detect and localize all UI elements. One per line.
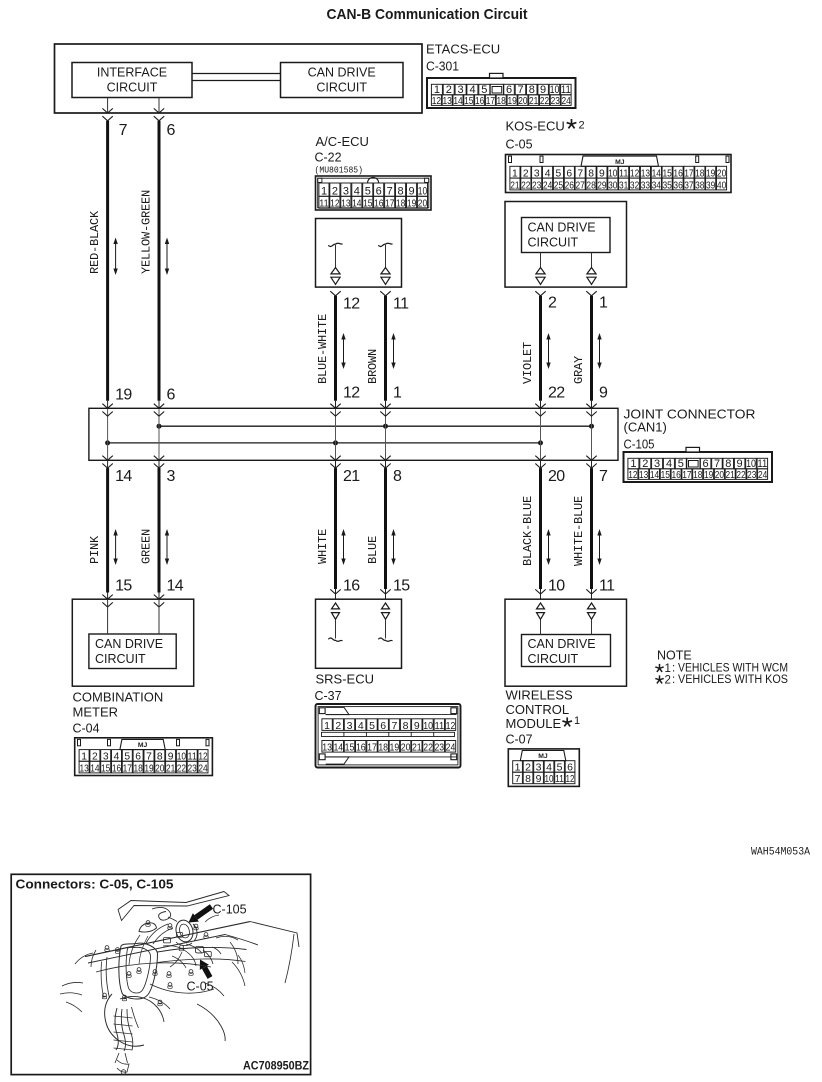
svg-text:VIOLET: VIOLET [521, 342, 535, 384]
svg-text:12: 12 [566, 773, 575, 785]
svg-text:BLACK-BLUE: BLACK-BLUE [521, 496, 535, 566]
svg-text:2: 2 [335, 720, 341, 732]
svg-text:11: 11 [599, 578, 615, 595]
svg-text:4: 4 [358, 720, 364, 732]
svg-text:29: 29 [597, 180, 607, 191]
svg-text:1: 1 [324, 720, 330, 732]
svg-text:CAN DRIVE: CAN DRIVE [308, 66, 376, 80]
svg-text:24: 24 [758, 469, 767, 481]
svg-text:22: 22 [423, 742, 433, 754]
svg-text:WAH54M053A: WAH54M053A [751, 847, 810, 859]
svg-text:12: 12 [343, 296, 360, 313]
svg-text:1: 1 [393, 385, 402, 402]
svg-text:C-22: C-22 [315, 151, 342, 165]
svg-text:NOTE: NOTE [657, 649, 692, 663]
svg-text:21: 21 [166, 763, 176, 774]
svg-text:17: 17 [682, 469, 691, 481]
svg-text:2: 2 [665, 674, 671, 686]
svg-text:30: 30 [608, 180, 618, 191]
svg-text:26: 26 [565, 180, 575, 191]
svg-text:21: 21 [726, 469, 735, 481]
svg-text:20: 20 [155, 763, 165, 774]
svg-text:36: 36 [673, 180, 683, 191]
svg-text:C-37: C-37 [315, 689, 342, 703]
svg-text:3: 3 [347, 720, 353, 732]
svg-text:C-07: C-07 [506, 733, 533, 747]
svg-text:21: 21 [412, 742, 422, 754]
svg-text:7: 7 [599, 468, 608, 485]
svg-text:20: 20 [401, 742, 411, 754]
svg-text:WIRELESS: WIRELESS [506, 688, 574, 703]
svg-text:BLUE: BLUE [366, 536, 380, 564]
svg-text:6: 6 [380, 720, 386, 732]
svg-text:C-05: C-05 [187, 980, 214, 994]
svg-text:METER: METER [73, 705, 119, 720]
svg-text:7: 7 [515, 773, 521, 785]
svg-text:18: 18 [396, 199, 406, 210]
svg-text:BLUE-WHITE: BLUE-WHITE [316, 314, 330, 384]
svg-text:17: 17 [385, 199, 395, 210]
svg-text:39: 39 [706, 180, 716, 191]
svg-text:19: 19 [115, 387, 132, 404]
svg-text:5: 5 [369, 720, 375, 732]
svg-text:C-04: C-04 [73, 722, 100, 736]
svg-text:24: 24 [543, 180, 553, 191]
svg-text:MJ: MJ [615, 159, 625, 166]
svg-text:17: 17 [123, 763, 133, 774]
svg-text:22: 22 [548, 385, 565, 402]
svg-text:VEHICLES WITH KOS: VEHICLES WITH KOS [678, 674, 788, 686]
svg-text:2: 2 [548, 295, 557, 312]
svg-text:C-301: C-301 [426, 60, 459, 74]
svg-text:MODULE: MODULE [506, 716, 562, 731]
svg-text:9: 9 [414, 720, 420, 732]
svg-text:(MU801585): (MU801585) [315, 166, 364, 176]
svg-text:8: 8 [403, 720, 409, 732]
svg-text:16: 16 [374, 199, 384, 210]
svg-text:23: 23 [434, 742, 444, 754]
svg-text:11: 11 [434, 720, 444, 732]
svg-text:C-105: C-105 [624, 438, 655, 452]
svg-text:23: 23 [551, 95, 560, 107]
svg-text:22: 22 [177, 763, 187, 774]
svg-text:WHITE-BLUE: WHITE-BLUE [572, 496, 586, 566]
svg-text:17: 17 [486, 95, 495, 107]
svg-text:13: 13 [443, 95, 452, 107]
svg-text:24: 24 [198, 763, 208, 774]
svg-text:AC708950BZ: AC708950BZ [243, 1059, 309, 1073]
svg-text:20: 20 [548, 468, 565, 485]
svg-text:11: 11 [555, 773, 564, 785]
svg-text:18: 18 [378, 742, 388, 754]
svg-text:16: 16 [475, 95, 484, 107]
svg-text:22: 22 [540, 95, 549, 107]
svg-text:9: 9 [536, 773, 542, 785]
svg-text:19: 19 [704, 469, 713, 481]
svg-text:8: 8 [525, 773, 531, 785]
svg-text:11: 11 [319, 199, 329, 210]
svg-text:COMBINATION: COMBINATION [73, 690, 164, 705]
svg-text:25: 25 [554, 180, 564, 191]
svg-text:PINK: PINK [88, 535, 102, 564]
svg-text:KOS-ECU: KOS-ECU [506, 119, 565, 134]
svg-text:12: 12 [446, 720, 456, 732]
svg-text:37: 37 [684, 180, 694, 191]
svg-text:13: 13 [639, 469, 648, 481]
svg-text:35: 35 [663, 180, 673, 191]
svg-text:YELLOW-GREEN: YELLOW-GREEN [140, 190, 154, 274]
svg-text:11: 11 [393, 296, 409, 313]
svg-text:BROWN: BROWN [366, 349, 380, 384]
svg-text:21: 21 [343, 468, 360, 485]
svg-text:16: 16 [356, 742, 366, 754]
svg-text:9: 9 [599, 385, 608, 402]
svg-text:34: 34 [652, 180, 662, 191]
svg-text:14: 14 [453, 95, 462, 107]
svg-text::: : [672, 663, 675, 675]
svg-text:31: 31 [619, 180, 629, 191]
svg-text:7: 7 [391, 720, 397, 732]
svg-text:15: 15 [393, 578, 410, 595]
svg-text:CIRCUIT: CIRCUIT [95, 652, 146, 666]
svg-text::: : [672, 674, 675, 686]
svg-text:21: 21 [529, 95, 538, 107]
svg-text:8: 8 [393, 468, 402, 485]
svg-text:16: 16 [112, 763, 122, 774]
svg-text:19: 19 [144, 763, 154, 774]
svg-text:22: 22 [736, 469, 745, 481]
svg-text:16: 16 [343, 578, 360, 595]
svg-text:A/C-ECU: A/C-ECU [316, 134, 369, 149]
svg-text:12: 12 [330, 199, 340, 210]
svg-text:22: 22 [521, 180, 531, 191]
svg-text:RED-BLACK: RED-BLACK [88, 210, 102, 274]
svg-text:19: 19 [507, 95, 516, 107]
svg-text:12: 12 [432, 95, 441, 107]
svg-text:15: 15 [115, 578, 132, 595]
svg-text:14: 14 [650, 469, 659, 481]
svg-text:1: 1 [665, 663, 671, 675]
svg-text:CIRCUIT: CIRCUIT [528, 236, 579, 250]
svg-text:14: 14 [352, 199, 362, 210]
svg-text:18: 18 [497, 95, 506, 107]
svg-text:CAN DRIVE: CAN DRIVE [528, 221, 596, 235]
svg-text:24: 24 [561, 95, 570, 107]
svg-text:13: 13 [79, 763, 89, 774]
svg-text:CONTROL: CONTROL [506, 702, 570, 717]
svg-text:38: 38 [695, 180, 705, 191]
svg-text:15: 15 [464, 95, 473, 107]
svg-text:C-05: C-05 [506, 138, 533, 152]
svg-text:18: 18 [133, 763, 143, 774]
svg-text:23: 23 [532, 180, 542, 191]
svg-text:20: 20 [418, 199, 428, 210]
svg-text:14: 14 [90, 763, 100, 774]
svg-text:(CAN1): (CAN1) [624, 420, 667, 435]
svg-text:7: 7 [119, 122, 128, 139]
svg-text:MJ: MJ [138, 742, 148, 749]
svg-text:19: 19 [407, 199, 417, 210]
svg-text:15: 15 [661, 469, 670, 481]
svg-text:17: 17 [367, 742, 377, 754]
svg-text:CAN DRIVE: CAN DRIVE [95, 637, 163, 651]
svg-text:C-105: C-105 [213, 903, 247, 917]
svg-text:15: 15 [345, 742, 355, 754]
svg-text:12: 12 [343, 385, 360, 402]
svg-text:CIRCUIT: CIRCUIT [316, 81, 367, 95]
svg-text:14: 14 [333, 742, 343, 754]
svg-text:14: 14 [167, 578, 184, 595]
svg-text:WHITE: WHITE [316, 529, 330, 564]
svg-text:40: 40 [717, 180, 727, 191]
svg-text:10: 10 [423, 720, 433, 732]
svg-text:32: 32 [630, 180, 640, 191]
svg-text:20: 20 [518, 95, 527, 107]
svg-text:15: 15 [101, 763, 111, 774]
svg-text:28: 28 [586, 180, 596, 191]
svg-text:6: 6 [167, 122, 176, 139]
svg-text:GRAY: GRAY [572, 356, 586, 384]
svg-text:1: 1 [574, 715, 580, 727]
svg-text:2: 2 [579, 120, 585, 132]
svg-text:CIRCUIT: CIRCUIT [528, 652, 579, 666]
svg-text:1: 1 [599, 295, 608, 312]
svg-text:24: 24 [446, 742, 456, 754]
svg-text:15: 15 [363, 199, 373, 210]
svg-text:27: 27 [576, 180, 586, 191]
svg-text:SRS-ECU: SRS-ECU [316, 672, 375, 687]
svg-text:CIRCUIT: CIRCUIT [107, 81, 158, 95]
svg-text:CAN DRIVE: CAN DRIVE [528, 637, 596, 651]
svg-text:23: 23 [188, 763, 198, 774]
svg-text:23: 23 [747, 469, 756, 481]
svg-text:13: 13 [322, 742, 332, 754]
svg-text:10: 10 [545, 773, 554, 785]
svg-text:18: 18 [693, 469, 702, 481]
svg-text:INTERFACE: INTERFACE [97, 66, 167, 80]
svg-text:33: 33 [641, 180, 651, 191]
svg-text:Connectors: C-05, C-105: Connectors: C-05, C-105 [16, 878, 174, 892]
svg-text:16: 16 [671, 469, 680, 481]
svg-text:12: 12 [628, 469, 637, 481]
svg-text:14: 14 [115, 468, 132, 485]
svg-text:3: 3 [167, 468, 176, 485]
svg-text:13: 13 [341, 199, 351, 210]
svg-text:MJ: MJ [538, 753, 548, 760]
svg-text:CAN-B Communication Circuit: CAN-B Communication Circuit [327, 6, 528, 23]
svg-text:ETACS-ECU: ETACS-ECU [426, 42, 500, 57]
svg-text:10: 10 [548, 578, 565, 595]
svg-text:21: 21 [510, 180, 520, 191]
svg-text:VEHICLES WITH WCM: VEHICLES WITH WCM [678, 663, 788, 675]
svg-text:GREEN: GREEN [140, 529, 154, 564]
svg-text:6: 6 [167, 387, 176, 404]
svg-text:20: 20 [715, 469, 724, 481]
svg-text:19: 19 [390, 742, 400, 754]
